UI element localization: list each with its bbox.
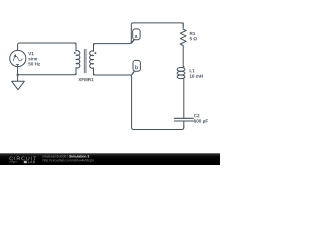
transformer XFMR1 secondary winding (90, 44, 94, 75)
footer bar (0, 153, 220, 165)
credit title (69, 155, 89, 158)
resistor R1 (180, 23, 186, 67)
node a flag (132, 29, 141, 43)
label V1 (28, 52, 33, 55)
transformer XFMR1 secondary phase dot (94, 52, 96, 54)
logo LAB (28, 161, 35, 163)
wire bottom-left: V1 bottom through junction to ground stub (18, 64, 76, 81)
transformer XFMR1 core (84, 49, 86, 73)
node b letter (135, 65, 138, 69)
label 600 uF (194, 119, 208, 123)
node a letter (135, 35, 138, 38)
wire secondary bottom to node b corner then down to bottom rail (94, 71, 184, 130)
transformer XFMR1 primary phase dot (74, 52, 76, 54)
credit user (43, 155, 68, 158)
transformer XFMR1 primary winding (76, 43, 80, 75)
label 16 mH (190, 74, 203, 77)
label L1 (190, 69, 195, 72)
voltage source V1 (10, 50, 26, 66)
label 50 Hz (28, 62, 40, 65)
logo waveform (9, 161, 17, 163)
label R1 (190, 32, 195, 35)
wire secondary top to node a corner then up and right to R1 (94, 23, 184, 47)
label 5 Ohm (190, 37, 197, 40)
label XFMR1 (78, 78, 93, 81)
ground (12, 81, 25, 89)
logo block (24, 161, 27, 163)
junction dot at V1 bottom node (17, 74, 19, 76)
capacitor C2 (174, 118, 193, 127)
label sine (28, 57, 37, 60)
node b flag (132, 60, 141, 74)
inductor L1 (177, 66, 185, 118)
logo CIRCUIT (9, 157, 36, 161)
label C2 (194, 114, 200, 117)
credit url (43, 159, 94, 162)
wire top-left: V1 top to transformer primary top (18, 43, 76, 50)
